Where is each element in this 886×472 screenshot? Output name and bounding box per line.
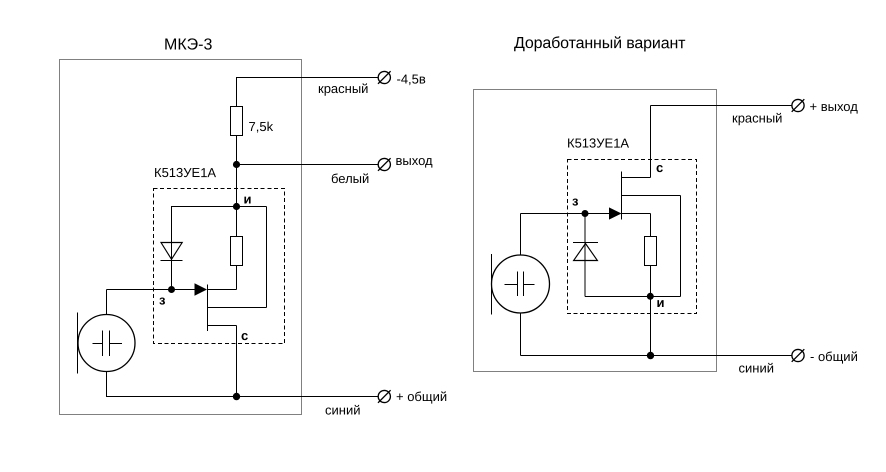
svg-text:синий: синий (738, 361, 773, 376)
svg-text:+ общий: + общий (396, 389, 447, 404)
svg-text:К513УЕ1А: К513УЕ1А (154, 165, 216, 180)
svg-text:МКЭ-3: МКЭ-3 (164, 37, 213, 54)
svg-text:выход: выход (395, 153, 433, 168)
svg-text:с: с (241, 328, 248, 343)
svg-text:с: с (656, 160, 663, 175)
svg-text:з: з (572, 194, 579, 209)
svg-text:красный: красный (732, 111, 782, 126)
svg-text:з: з (159, 293, 166, 308)
svg-text:белый: белый (331, 171, 369, 186)
svg-text:- общий: - общий (810, 349, 858, 364)
svg-text:+ выход: + выход (809, 99, 858, 114)
svg-text:красный: красный (318, 81, 368, 96)
svg-text:синий: синий (325, 403, 360, 418)
svg-text:и: и (656, 295, 664, 310)
svg-text:7,5k: 7,5k (248, 119, 273, 134)
svg-text:-4,5в: -4,5в (396, 72, 425, 87)
svg-text:Доработанный вариант: Доработанный вариант (514, 35, 686, 52)
svg-text:и: и (243, 192, 251, 207)
svg-text:К513УЕ1А: К513УЕ1А (567, 136, 629, 151)
